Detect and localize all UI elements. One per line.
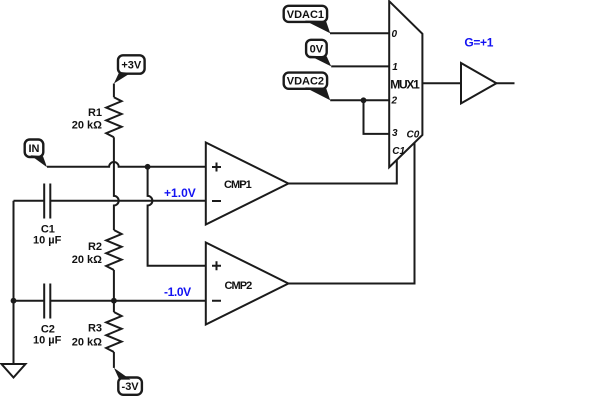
svg-text:CMP2: CMP2 (225, 280, 253, 292)
svg-text:MUX1: MUX1 (390, 78, 420, 92)
svg-text:R2: R2 (88, 241, 102, 253)
svg-text:IN: IN (29, 143, 40, 155)
svg-text:G=+1: G=+1 (464, 35, 493, 49)
svg-text:0V: 0V (310, 44, 324, 56)
svg-text:C1: C1 (392, 146, 405, 157)
svg-text:VDAC2: VDAC2 (287, 76, 324, 88)
svg-text:0: 0 (392, 29, 398, 40)
svg-text:3: 3 (392, 128, 398, 139)
svg-text:+3V: +3V (121, 60, 142, 72)
svg-text:10 µF: 10 µF (33, 235, 62, 247)
svg-text:10 µF: 10 µF (33, 335, 62, 347)
svg-text:+1.0V: +1.0V (164, 186, 196, 200)
svg-text:C0: C0 (407, 129, 420, 140)
svg-text:2: 2 (391, 96, 398, 107)
svg-text:R1: R1 (88, 107, 102, 119)
svg-text:VDAC1: VDAC1 (287, 9, 324, 21)
svg-text:CMP1: CMP1 (224, 179, 252, 191)
svg-text:20 kΩ: 20 kΩ (72, 336, 102, 348)
svg-text:1: 1 (392, 62, 398, 73)
svg-text:R3: R3 (88, 323, 102, 335)
svg-text:20 kΩ: 20 kΩ (72, 254, 102, 266)
svg-text:20 kΩ: 20 kΩ (72, 120, 102, 132)
svg-text:-3V: -3V (122, 381, 140, 393)
svg-text:-1.0V: -1.0V (164, 285, 191, 299)
